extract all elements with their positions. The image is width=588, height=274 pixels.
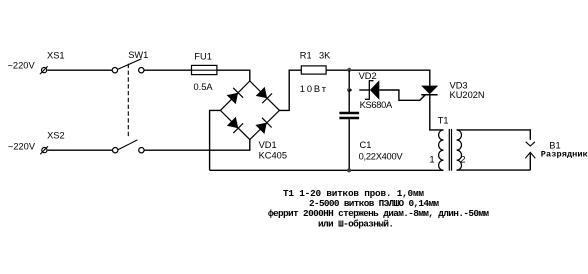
svg-text:VD3: VD3 (450, 80, 468, 90)
wire node B to VD2 cathode (with gap) (349, 89, 369, 91)
svg-text:или Ш-образный.: или Ш-образный. (318, 218, 394, 229)
svg-text:T1: T1 (438, 115, 449, 125)
svg-text:XS1: XS1 (47, 50, 65, 60)
wire VD2 anode to VD3 gate (379, 90, 425, 100)
svg-text:Разрядник: Разрядник (541, 150, 588, 160)
svg-text:~220V: ~220V (8, 142, 36, 152)
svg-text:3K: 3K (319, 50, 331, 60)
junction C1 / bottom rail (347, 168, 351, 172)
switch SW1 pole 2 (113, 140, 145, 153)
switch SW1 pole 1 (112, 59, 144, 73)
wire XS1 to SW1 (47, 69, 112, 71)
wire SW1 to FU1 (144, 69, 191, 71)
svg-text:VD2: VD2 (359, 71, 377, 81)
svg-text:KC405: KC405 (259, 151, 287, 161)
spark gap B1 (lower arrow) (525, 152, 535, 170)
svg-text:KS680A: KS680A (360, 100, 393, 110)
junction node B (VD2 branch) (347, 88, 351, 92)
fuse FU1 (192, 65, 217, 74)
resistor R1 (301, 66, 326, 74)
bridge rectifier VD1 (diamond edges) (220, 81, 279, 140)
svg-text:R1: R1 (300, 50, 312, 60)
svg-text:XS2: XS2 (47, 130, 65, 140)
capacitor C1 (339, 113, 359, 170)
svg-text:VD1: VD1 (259, 140, 277, 150)
spark gap B1 (upper arrow) (526, 142, 535, 146)
svg-text:0,22X400V: 0,22X400V (359, 152, 404, 162)
bridge diode D3 (lower-left, L to B) (227, 117, 243, 133)
bottom rail wire (210, 169, 444, 171)
bridge diode D2 (upper-right, T to R) (256, 87, 272, 103)
wire B1 to T1 secondary bottom (457, 169, 531, 171)
bridge diode D1 (upper-left, L to T) (227, 88, 243, 104)
wire XS2 to SW1 pole 2 (48, 149, 113, 151)
wire node B to C1 top plate (348, 90, 350, 112)
switch SW1 gang link (dashed) (127, 64, 129, 137)
transformer T1 secondary winding (457, 130, 462, 170)
svg-text:SW1: SW1 (128, 50, 148, 60)
bridge diode D4 (lower-right, B to R) (255, 118, 271, 134)
svg-text:C1: C1 (360, 140, 372, 150)
thyristor VD3 KU202N (421, 86, 438, 95)
svg-text:KU202N: KU202N (450, 90, 485, 100)
wire SW1 pole 2 to bridge AC2 (bottom vertex) (144, 140, 250, 151)
connector XS1 (socket symbol) (40, 66, 48, 74)
wire bridge minus (left vertex) to bottom rail (210, 110, 221, 170)
junction node A (R1 / C1 branch) (347, 68, 351, 72)
zener diode VD2 KS680A (365, 80, 379, 100)
svg-text:0.5A: 0.5A (194, 82, 214, 92)
svg-text:FU1: FU1 (194, 51, 212, 61)
connector XS2 (socket symbol) (40, 146, 48, 154)
svg-text:10Вт: 10Вт (300, 84, 327, 94)
wire T1 secondary top to B1 (457, 130, 531, 140)
transformer T1 core (449, 129, 451, 171)
svg-text:~220V: ~220V (8, 61, 36, 71)
svg-text:1: 1 (429, 155, 434, 166)
wire VD3 cathode to T1 primary (430, 95, 444, 130)
wire R1 to VD3 anode (326, 70, 430, 86)
wire node A down to node B (348, 70, 350, 90)
svg-text:2: 2 (460, 155, 465, 166)
wire bridge plus (right vertex) to R1 (279, 70, 301, 110)
wire FU1 to bridge AC1 (top vertex) (217, 70, 250, 81)
transformer T1 primary winding (439, 130, 444, 170)
